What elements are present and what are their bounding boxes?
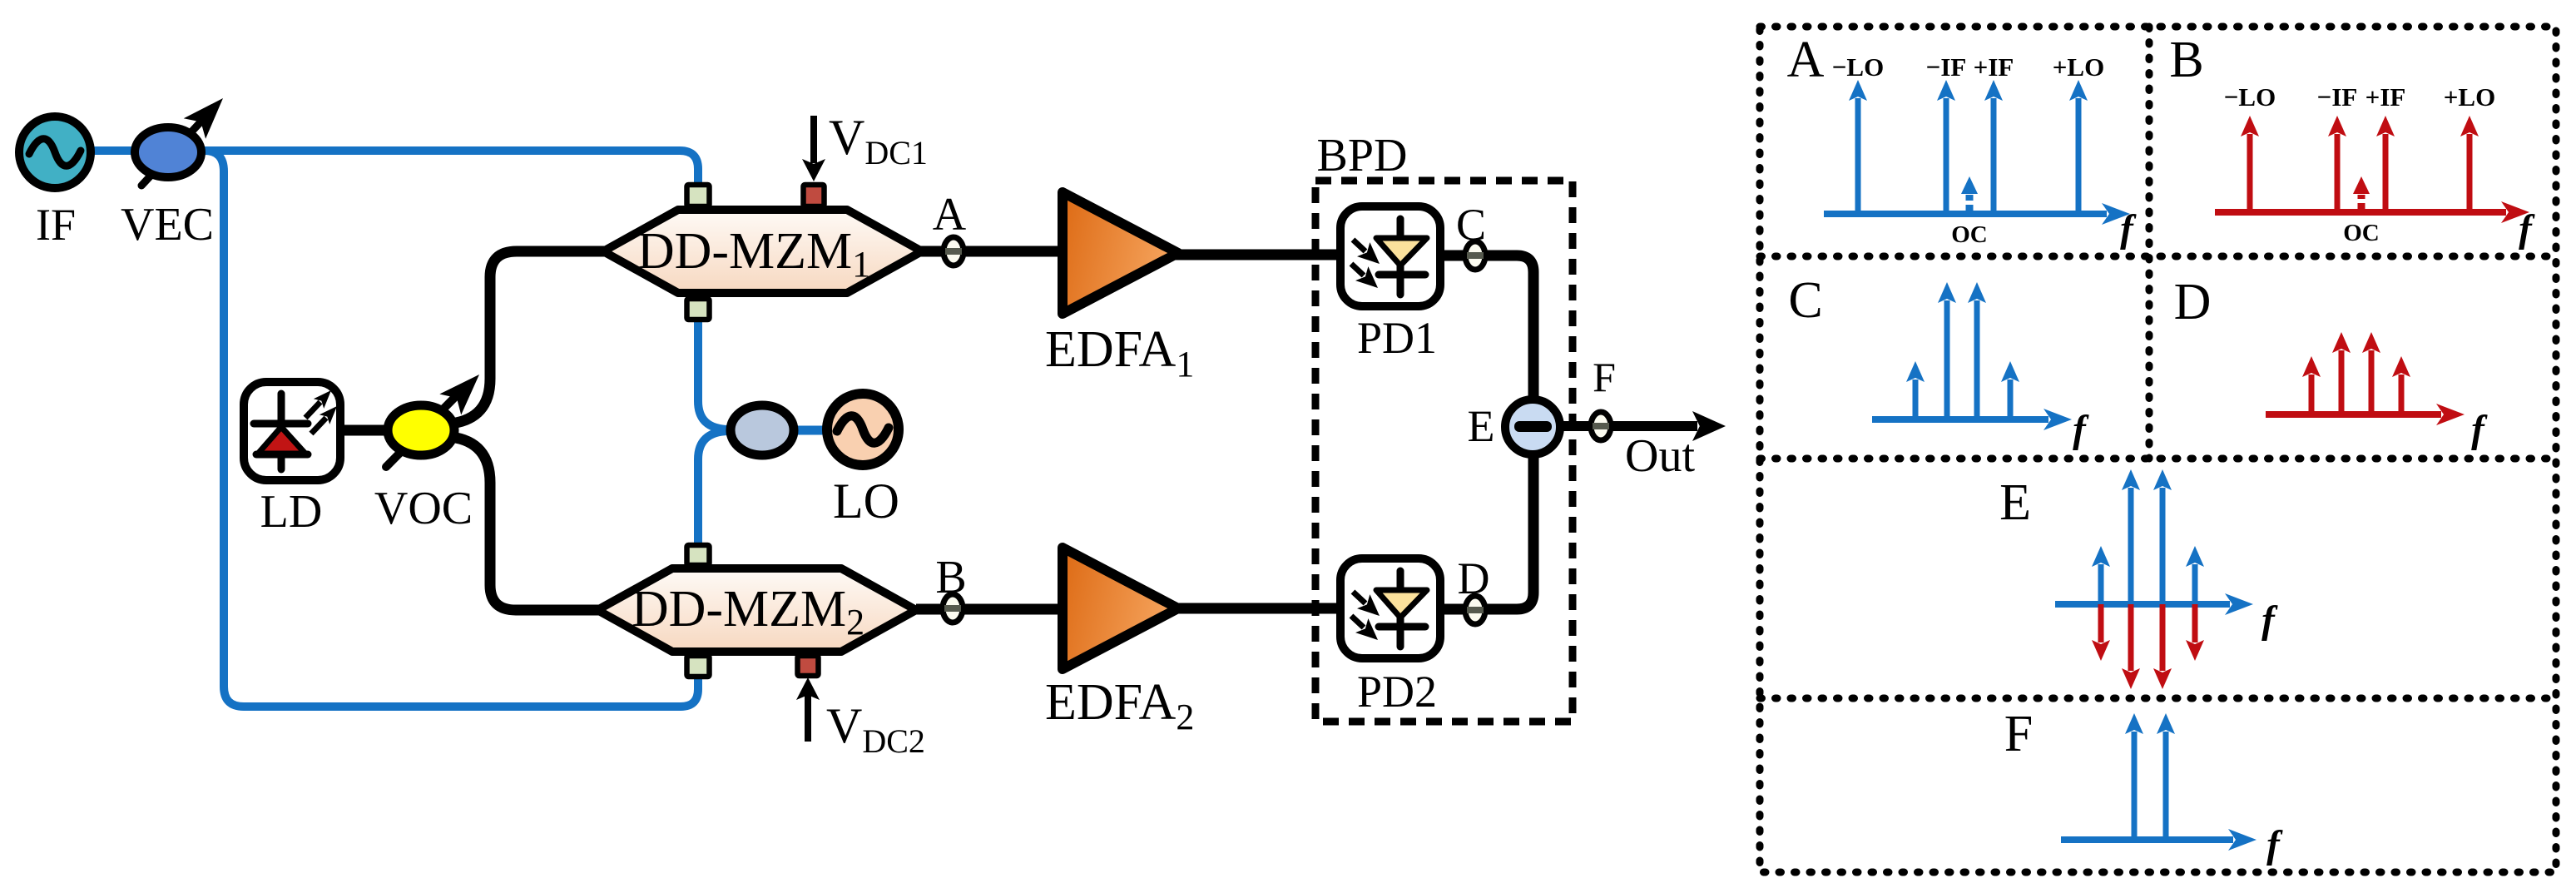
- axis panel B: [2215, 209, 2506, 216]
- node A: [944, 237, 964, 265]
- arrow +LO panel B: [2467, 134, 2473, 212]
- svg-text:PD1: PD1: [1357, 313, 1437, 363]
- arrow up panel E: [2098, 564, 2104, 604]
- axis panel D: [2266, 411, 2441, 418]
- svg-text:LO: LO: [833, 474, 899, 528]
- arrow up panel E: [2128, 488, 2134, 604]
- spectrum panels dashed grid: [1760, 27, 2556, 872]
- pin DC square DD-MZM1 (VDC1): [804, 185, 825, 206]
- supply VDC2 arrow: [805, 694, 811, 742]
- photodiode PD2: [1340, 558, 1440, 658]
- axis panel C: [1872, 416, 2048, 423]
- svg-text:OC: OC: [1951, 221, 1988, 248]
- splitter ellipse (LO power divider): [731, 405, 794, 455]
- svg-text:Out: Out: [1625, 430, 1695, 482]
- axis panel F: [2061, 836, 2233, 843]
- svg-text:VEC: VEC: [121, 199, 214, 251]
- modulator DD-MZM1: [603, 210, 922, 293]
- svg-text:OC: OC: [2343, 220, 2380, 246]
- svg-text:−LO: −LO: [1832, 52, 1884, 82]
- svg-text:IF: IF: [36, 200, 76, 250]
- arrow down panel E: [2192, 604, 2198, 642]
- pin RF square DD-MZM2: [687, 656, 710, 677]
- source LO: [827, 394, 899, 465]
- arrow down panel E: [2160, 604, 2166, 671]
- wire LD to VOC: [337, 425, 391, 436]
- svg-text:D: D: [1458, 553, 1490, 603]
- node F: [1591, 412, 1611, 440]
- arrow −LO panel B: [2247, 134, 2253, 212]
- arrow panel C: [1974, 300, 1980, 419]
- axis panel E: [2055, 601, 2230, 608]
- arrow panel C: [1944, 300, 1950, 419]
- arrow −IF panel B: [2335, 134, 2341, 212]
- arrow OC dashed panel B: [2358, 195, 2365, 211]
- arrow OC dashed panel A: [1966, 195, 1974, 212]
- node B: [943, 594, 963, 623]
- subtractor E: [1505, 399, 1560, 454]
- arrow up panel E: [2192, 564, 2198, 604]
- svg-text:−IF: −IF: [1926, 52, 1967, 82]
- svg-text:A: A: [933, 189, 967, 241]
- wire LO splitter tee lower branch: [698, 431, 728, 551]
- supply VDC1 arrow: [810, 116, 817, 163]
- svg-text:−IF: −IF: [2317, 82, 2358, 112]
- arrowhead Out: [1692, 411, 1726, 441]
- arrow panel D: [2309, 375, 2315, 414]
- svg-text:BPD: BPD: [1317, 130, 1408, 181]
- wire RF top rail (VEC to DD-MZM1 RF input): [55, 151, 698, 193]
- svg-text:−LO: −LO: [2224, 82, 2276, 112]
- svg-text:E: E: [1999, 474, 2031, 531]
- svg-text:E: E: [1468, 401, 1495, 451]
- wire DD-MZM2 output through node B to EDFA2: [916, 604, 1065, 615]
- arrow panel D: [2369, 350, 2375, 414]
- pin LO square DD-MZM1: [687, 299, 710, 320]
- wire VOC lower branch to DD-MZM2 input: [451, 437, 601, 610]
- BPD dashed box: [1315, 181, 1573, 722]
- modulator DD-MZM2: [597, 568, 916, 652]
- svg-text:DD-MZM1: DD-MZM1: [637, 223, 870, 285]
- svg-text:DD-MZM2: DD-MZM2: [632, 581, 864, 642]
- svg-text:D: D: [2174, 274, 2212, 330]
- wire splitter to LO source: [790, 426, 832, 435]
- attenuator VOC: [386, 396, 456, 467]
- svg-text:C: C: [1788, 272, 1822, 329]
- svg-text:LD: LD: [260, 486, 323, 538]
- wire PD2 through node D up to subtractor E: [1438, 456, 1533, 609]
- source IF: [19, 117, 91, 188]
- arrow +IF panel A: [1991, 98, 1997, 214]
- svg-text:PD2: PD2: [1357, 667, 1437, 717]
- arrow +IF panel B: [2383, 134, 2389, 212]
- arrow up panel E: [2160, 488, 2166, 604]
- arrow down panel E: [2128, 604, 2134, 671]
- arrow −LO panel A: [1855, 98, 1861, 214]
- arrow panel D: [2399, 375, 2405, 414]
- svg-text:EDFA2: EDFA2: [1045, 674, 1194, 737]
- arrow +LO panel A: [2076, 98, 2082, 214]
- laser diode LD: [244, 382, 340, 480]
- photodiode PD1: [1340, 206, 1440, 306]
- svg-text:B: B: [2169, 32, 2203, 88]
- svg-text:A: A: [1787, 32, 1825, 88]
- wire VOC upper branch to DD-MZM1 input: [451, 251, 607, 424]
- attenuator VEC: [141, 114, 208, 186]
- pin LO square DD-MZM2: [687, 545, 710, 565]
- svg-text:+IF: +IF: [2365, 82, 2406, 112]
- svg-text:B: B: [935, 552, 966, 603]
- amplifier EDFA1: [1063, 192, 1178, 314]
- arrow panel F: [2163, 732, 2169, 840]
- svg-text:C: C: [1456, 200, 1486, 250]
- wire PD1 through node C down to subtractor E: [1438, 255, 1533, 404]
- wire subtractor E through node F to output arrow: [1559, 421, 1697, 431]
- arrow panel C: [1913, 380, 1919, 419]
- svg-text:F: F: [1593, 354, 1616, 400]
- svg-text:F: F: [2004, 706, 2033, 762]
- wire EDFA2 to PD2: [1175, 603, 1344, 614]
- node C: [1465, 241, 1485, 270]
- node D: [1465, 596, 1485, 624]
- arrow −IF panel A: [1944, 98, 1949, 214]
- pin DC square DD-MZM2 (VDC2): [798, 656, 819, 676]
- arrow panel D: [2339, 350, 2345, 414]
- svg-text:EDFA1: EDFA1: [1045, 321, 1194, 384]
- svg-text:+IF: +IF: [1974, 52, 2014, 82]
- wire LO splitter tee upper branch: [698, 308, 736, 429]
- pin RF square DD-MZM1: [687, 185, 710, 206]
- arrow panel F: [2132, 732, 2138, 840]
- svg-text:VOC: VOC: [374, 483, 473, 534]
- axis panel A: [1824, 211, 2107, 217]
- wire DD-MZM1 output through node A to EDFA1: [919, 246, 1065, 257]
- svg-text:+LO: +LO: [2053, 52, 2104, 82]
- wire EDFA1 to PD1: [1175, 250, 1344, 260]
- svg-text:+LO: +LO: [2444, 82, 2495, 112]
- amplifier EDFA2: [1063, 548, 1178, 669]
- arrow panel C: [2008, 380, 2014, 419]
- wire RF left drop (VEC around bottom to DD-MZM2 RF input): [205, 151, 698, 707]
- arrow down panel E: [2098, 604, 2104, 642]
